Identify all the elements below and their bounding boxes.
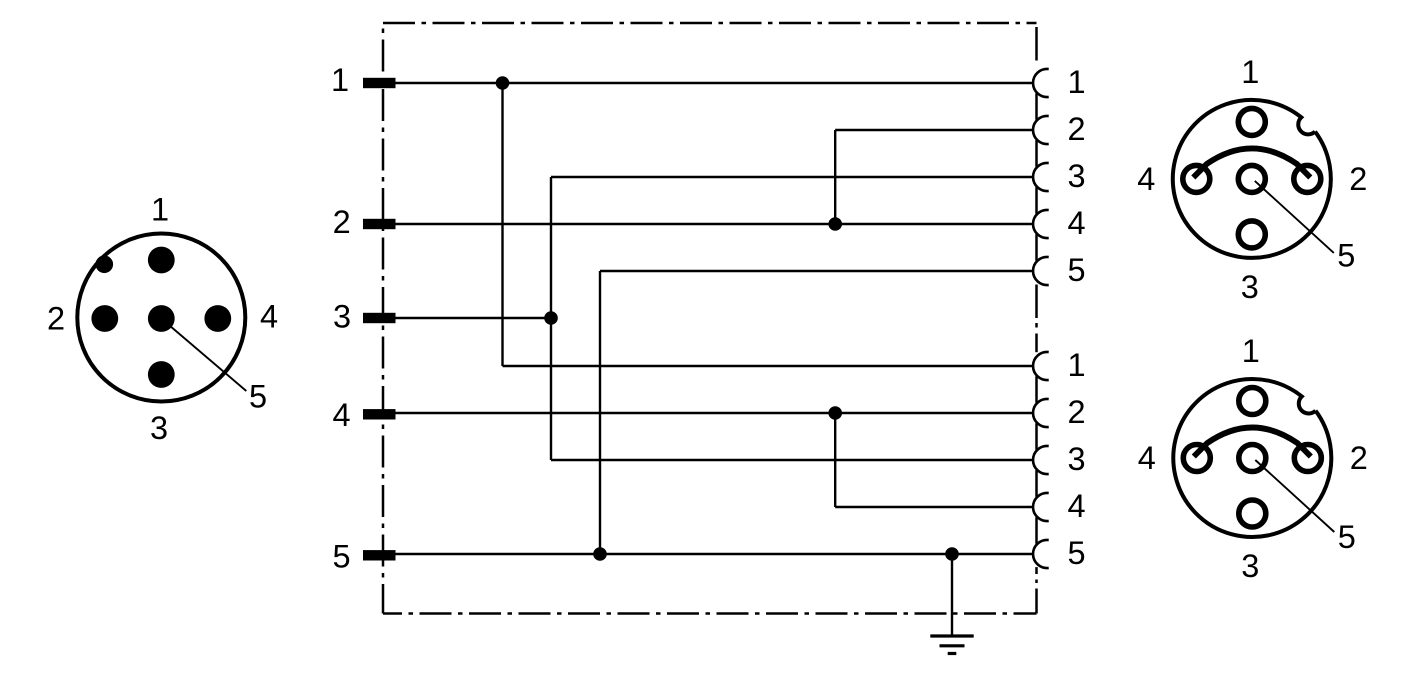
svg-text:1: 1 xyxy=(1242,333,1260,369)
female connector A socket 4 xyxy=(1183,165,1210,192)
svg-text:1: 1 xyxy=(1067,347,1085,383)
female connector A socket 2 xyxy=(1294,165,1321,192)
shield left border xyxy=(382,23,385,614)
output socket contact B3 xyxy=(1033,446,1049,474)
junction on wire 1 xyxy=(496,76,510,90)
wire branch: input 3 up to output A3 xyxy=(550,177,552,318)
female connector A body circle with keying notch xyxy=(1173,100,1331,258)
female connector B pin 5 leader line xyxy=(1255,460,1334,532)
male pin 3 xyxy=(148,361,175,388)
output socket contact A3 xyxy=(1033,163,1049,191)
output socket contact B1 xyxy=(1033,352,1049,380)
junction on wire 4 xyxy=(828,406,842,420)
svg-text:5: 5 xyxy=(332,539,350,575)
input pin 4 tick xyxy=(363,409,396,419)
wire branch: input 2 up to output A2 xyxy=(834,130,836,224)
svg-text:1: 1 xyxy=(151,192,169,228)
svg-text:4: 4 xyxy=(1138,440,1156,476)
wire branch: input 5 down to ground xyxy=(951,554,953,636)
svg-text:4: 4 xyxy=(260,299,278,335)
svg-text:1: 1 xyxy=(1241,54,1259,90)
female connector B socket 4 xyxy=(1183,445,1210,472)
male pin 4 xyxy=(204,305,231,332)
male pin 1 xyxy=(148,247,175,274)
female connector A bridge wire pin4-pin2 xyxy=(1193,148,1310,177)
wire branch: input 4 down to output B4 xyxy=(834,413,836,507)
output socket contact A1 xyxy=(1033,69,1049,97)
svg-text:5: 5 xyxy=(1337,237,1355,273)
female connector B socket 2 xyxy=(1294,445,1321,472)
svg-text:4: 4 xyxy=(1137,161,1155,197)
shield bottom border xyxy=(383,612,1037,615)
svg-text:2: 2 xyxy=(1067,111,1085,147)
female connector A socket 5 xyxy=(1238,165,1265,192)
input pin 2 tick xyxy=(363,219,396,229)
junction on wire 3 xyxy=(544,311,558,325)
output socket contact B5 xyxy=(1033,540,1049,568)
female connector B bridge wire pin4-pin2 xyxy=(1194,428,1311,457)
svg-text:5: 5 xyxy=(1067,535,1085,571)
wire branch: input 5 up to output A5 xyxy=(599,271,601,554)
female connector B socket 5 xyxy=(1239,445,1266,472)
svg-text:1: 1 xyxy=(331,62,349,98)
svg-text:4: 4 xyxy=(1067,488,1085,524)
female connector A socket 1 xyxy=(1238,108,1265,135)
output socket contact B2 xyxy=(1033,399,1049,427)
ground / earth symbol xyxy=(930,636,973,654)
female connector B socket 1 xyxy=(1239,388,1266,415)
svg-text:3: 3 xyxy=(1067,441,1085,477)
junction on wire 5 at ground drop xyxy=(945,547,959,561)
input pin 3 tick xyxy=(363,313,396,323)
svg-text:3: 3 xyxy=(333,299,351,335)
female connector A pin 5 leader line xyxy=(1255,181,1334,253)
junction on wire 2 xyxy=(828,217,842,231)
female connector B socket 3 xyxy=(1239,500,1266,527)
svg-text:1: 1 xyxy=(1067,64,1085,100)
svg-text:3: 3 xyxy=(1241,269,1259,305)
male pin 5 leader line xyxy=(161,319,246,392)
wire from input 5 xyxy=(396,553,1034,555)
shield right border xyxy=(1035,27,1038,614)
svg-text:2: 2 xyxy=(47,301,65,337)
svg-text:5: 5 xyxy=(249,379,267,415)
wire branch: input 1 down to output B1 xyxy=(501,83,503,366)
output socket contact A4 xyxy=(1033,210,1049,238)
wire from input 2 xyxy=(396,223,1034,225)
output socket contact A5 xyxy=(1033,257,1049,285)
male pin 2 xyxy=(91,305,118,332)
svg-text:3: 3 xyxy=(1067,158,1085,194)
svg-text:2: 2 xyxy=(1350,440,1368,476)
svg-text:2: 2 xyxy=(1067,394,1085,430)
input pin 1 tick xyxy=(363,78,396,88)
svg-text:5: 5 xyxy=(1338,519,1356,555)
svg-text:5: 5 xyxy=(1067,252,1085,288)
wire from input 4 xyxy=(396,412,1034,414)
svg-text:4: 4 xyxy=(1067,205,1085,241)
svg-text:4: 4 xyxy=(332,397,350,433)
male connector M12 body circle xyxy=(77,234,245,402)
male connector keying dot xyxy=(96,255,114,273)
wire branch: input 3 down to output B3 xyxy=(550,318,552,460)
svg-text:3: 3 xyxy=(1241,548,1259,584)
male pin 5 (centre) xyxy=(148,305,175,332)
wire from input 1 xyxy=(396,82,1034,84)
female connector B body circle with keying notch xyxy=(1173,379,1331,537)
svg-text:3: 3 xyxy=(150,410,168,446)
female connector A socket 3 xyxy=(1238,221,1265,248)
shield / cable boundary top border xyxy=(383,22,1037,25)
output socket contact A2 xyxy=(1033,116,1049,144)
junction on wire 5 xyxy=(593,547,607,561)
wire from input 3 xyxy=(396,317,552,319)
svg-text:2: 2 xyxy=(333,204,351,240)
input pin 5 tick xyxy=(363,550,396,560)
output socket contact B4 xyxy=(1033,493,1049,521)
svg-text:2: 2 xyxy=(1349,161,1367,197)
